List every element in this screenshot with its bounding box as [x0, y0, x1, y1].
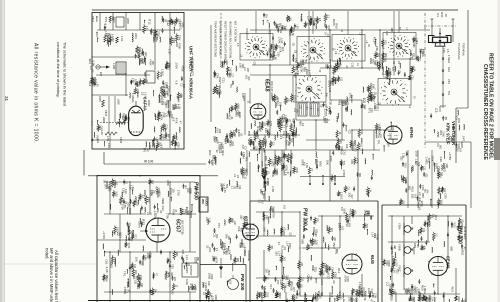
svg-text:R12: R12	[265, 215, 268, 220]
svg-text:1000: 1000	[457, 296, 460, 302]
svg-text:C11: C11	[370, 108, 373, 113]
svg-text:1000: 1000	[147, 197, 150, 203]
svg-text:1000: 1000	[172, 38, 175, 44]
svg-text:1.5K: 1.5K	[281, 118, 284, 123]
svg-text:R60: R60	[151, 180, 154, 185]
svg-text:100: 100	[408, 289, 412, 294]
svg-text:.001: .001	[172, 19, 175, 24]
svg-text:L805: L805	[98, 96, 101, 102]
svg-text:150V: 150V	[238, 112, 242, 118]
svg-text:C80: C80	[329, 100, 333, 105]
svg-text:680: 680	[186, 211, 190, 216]
svg-text:.001: .001	[271, 206, 275, 212]
svg-text:W10: W10	[301, 60, 305, 66]
svg-text:6U8: 6U8	[369, 255, 375, 264]
svg-text:R60: R60	[264, 156, 268, 162]
svg-text:TERMINAL: TERMINAL	[462, 43, 466, 57]
svg-text:L801: L801	[134, 33, 138, 39]
svg-text:2.2: 2.2	[230, 186, 233, 190]
svg-text:.047: .047	[282, 256, 285, 261]
svg-text:1 MEG: 1 MEG	[447, 55, 451, 63]
svg-text:680: 680	[384, 53, 387, 58]
svg-text:5%: 5%	[309, 276, 313, 281]
svg-text:C11: C11	[269, 284, 273, 289]
svg-text:L80: L80	[155, 137, 158, 142]
svg-text:TO ANTENNA: TO ANTENNA	[457, 43, 461, 60]
svg-text:.047: .047	[153, 112, 157, 118]
svg-text:1000: 1000	[275, 170, 278, 176]
svg-text:2.2: 2.2	[282, 135, 286, 139]
svg-text:C3: C3	[434, 108, 438, 112]
svg-text:2ND: 2ND	[201, 199, 204, 204]
svg-text:R12: R12	[141, 219, 145, 225]
svg-text:L14: L14	[418, 197, 421, 202]
svg-text:150V: 150V	[337, 145, 340, 151]
svg-text:W10: W10	[319, 294, 322, 300]
svg-text:10K: 10K	[182, 84, 185, 89]
svg-text:10K: 10K	[227, 250, 231, 255]
svg-text:L80: L80	[96, 83, 99, 88]
svg-text:R12: R12	[434, 215, 438, 220]
svg-text:1.5K: 1.5K	[150, 189, 154, 195]
svg-text:150V: 150V	[151, 290, 154, 296]
svg-text:100: 100	[281, 47, 285, 52]
svg-text:330: 330	[302, 220, 306, 225]
svg-text:100: 100	[388, 283, 392, 288]
svg-text:.001: .001	[349, 93, 353, 99]
svg-text:R12: R12	[447, 67, 451, 72]
svg-text:C14: C14	[107, 143, 110, 148]
svg-text:PART OF W4A: PART OF W4A	[218, 77, 222, 95]
svg-text:R60: R60	[384, 57, 387, 62]
svg-text:W10: W10	[457, 144, 460, 150]
svg-text:.001: .001	[373, 233, 376, 238]
svg-text:L14: L14	[222, 184, 226, 189]
svg-text:47: 47	[463, 247, 467, 251]
svg-text:C80: C80	[108, 186, 112, 192]
svg-text:.001: .001	[181, 22, 185, 28]
svg-text:C3: C3	[244, 146, 248, 150]
svg-text:1000: 1000	[330, 81, 333, 87]
svg-text:R60: R60	[220, 142, 224, 148]
svg-text:3.9K: 3.9K	[374, 293, 377, 298]
svg-text:C61: C61	[342, 150, 346, 156]
svg-text:2.2: 2.2	[284, 26, 288, 30]
svg-text:6FH5: 6FH5	[409, 127, 414, 138]
svg-text:R12: R12	[372, 37, 376, 43]
svg-text:1 MEG: 1 MEG	[136, 281, 140, 289]
svg-text:680: 680	[301, 239, 305, 244]
svg-text:.001: .001	[315, 229, 319, 235]
svg-text:6AF4A: 6AF4A	[143, 97, 148, 112]
svg-text:R12: R12	[443, 188, 446, 193]
svg-text:C11: C11	[370, 289, 374, 294]
svg-text:680: 680	[164, 104, 168, 109]
svg-text:10K: 10K	[247, 76, 250, 81]
svg-text:C80: C80	[171, 264, 174, 269]
svg-text:C61: C61	[411, 297, 414, 302]
svg-text:TP1: TP1	[365, 224, 368, 229]
svg-text:270K: 270K	[459, 226, 462, 232]
svg-text:1.5K: 1.5K	[178, 104, 182, 110]
svg-text:L14: L14	[185, 255, 189, 260]
svg-text:6.8: 6.8	[160, 145, 163, 149]
svg-text:120: 120	[173, 277, 176, 282]
svg-text:10K: 10K	[345, 144, 349, 149]
svg-text:22: 22	[289, 232, 293, 236]
svg-text:CHASSIS/TUNER CROSS-REFERENCE: CHASSIS/TUNER CROSS-REFERENCE	[482, 64, 488, 161]
svg-text:C11: C11	[339, 77, 342, 82]
svg-text:100: 100	[265, 14, 268, 19]
svg-text:Y30A: Y30A	[398, 223, 402, 230]
svg-text:1.5K: 1.5K	[431, 296, 434, 301]
svg-text:L80: L80	[285, 276, 289, 281]
svg-text:470K: 470K	[215, 258, 218, 264]
svg-text:.047: .047	[292, 287, 296, 293]
svg-text:3.9K: 3.9K	[346, 276, 350, 282]
svg-text:470K: 470K	[177, 142, 180, 148]
svg-text:+275V: +275V	[448, 152, 452, 160]
svg-text:R12: R12	[147, 19, 151, 25]
svg-text:1 MEG: 1 MEG	[204, 282, 208, 292]
svg-text:C80: C80	[444, 193, 448, 199]
svg-text:C11: C11	[422, 228, 425, 233]
svg-text:1 MEG: 1 MEG	[340, 192, 343, 200]
svg-text:3.9K: 3.9K	[279, 279, 282, 284]
svg-text:.001: .001	[208, 247, 212, 253]
svg-text:6DT6A: 6DT6A	[244, 216, 249, 229]
svg-text:100: 100	[241, 63, 245, 68]
svg-text:L80: L80	[131, 186, 134, 191]
svg-text:1000: 1000	[161, 99, 165, 105]
svg-text:6.8: 6.8	[111, 34, 115, 38]
svg-text:330: 330	[181, 250, 185, 255]
svg-text:.01: .01	[247, 100, 250, 104]
svg-text:R60: R60	[294, 130, 297, 135]
svg-text:330: 330	[138, 47, 141, 52]
svg-text:C80: C80	[375, 46, 379, 52]
svg-text:L14: L14	[169, 259, 172, 264]
svg-text:6EW6: 6EW6	[446, 256, 451, 269]
svg-text:MIX: MIX	[143, 72, 147, 77]
svg-text:W10: W10	[273, 44, 277, 50]
svg-text:L80: L80	[300, 262, 303, 267]
svg-text:10K: 10K	[450, 224, 454, 229]
svg-text:10K: 10K	[195, 187, 199, 192]
svg-text:PW 300: PW 300	[240, 274, 245, 291]
svg-text:R12: R12	[166, 20, 170, 26]
svg-text:100: 100	[415, 38, 418, 43]
svg-text:1.5K: 1.5K	[360, 292, 363, 297]
svg-text:W10: W10	[440, 200, 443, 206]
svg-text:100: 100	[373, 60, 377, 65]
svg-text:100: 100	[314, 240, 318, 245]
svg-text:L13B: L13B	[112, 63, 116, 69]
svg-text:VHF TUNER: VHF TUNER	[451, 121, 456, 145]
svg-text:3.9K: 3.9K	[155, 37, 158, 42]
svg-text:270K: 270K	[177, 19, 180, 25]
svg-text:TP1: TP1	[390, 249, 394, 255]
svg-text:L14: L14	[369, 188, 372, 193]
svg-text:3.9K: 3.9K	[105, 267, 109, 274]
svg-text:3-4: 3-4	[436, 13, 439, 17]
svg-text:L14: L14	[280, 39, 284, 44]
svg-text:1.5K: 1.5K	[160, 112, 163, 117]
svg-text:C3: C3	[284, 124, 288, 128]
svg-text:3.9K: 3.9K	[439, 156, 443, 162]
svg-text:100: 100	[166, 92, 169, 97]
svg-text:TP1: TP1	[342, 161, 345, 166]
svg-text:270K: 270K	[272, 212, 276, 219]
svg-text:C801: C801	[91, 16, 94, 23]
svg-text:3.9K: 3.9K	[162, 134, 165, 139]
svg-text:TP1: TP1	[143, 148, 146, 153]
svg-text:1000: 1000	[343, 208, 347, 214]
svg-text:1.5K: 1.5K	[283, 283, 286, 288]
svg-text:C11: C11	[143, 196, 147, 201]
svg-text:C80: C80	[377, 53, 380, 58]
svg-text:150V: 150V	[292, 95, 295, 101]
svg-text:470K: 470K	[271, 171, 274, 177]
svg-text:120: 120	[255, 146, 258, 151]
svg-text:330: 330	[215, 234, 219, 239]
svg-text:6.8: 6.8	[282, 205, 285, 209]
svg-text:1 MEG: 1 MEG	[229, 67, 232, 75]
svg-text:.001: .001	[275, 95, 278, 100]
svg-text:C11: C11	[133, 264, 136, 269]
svg-text:1000: 1000	[236, 103, 240, 110]
svg-text:100: 100	[149, 253, 153, 258]
svg-text:270K: 270K	[178, 35, 181, 41]
svg-text:270K: 270K	[189, 188, 193, 194]
svg-text:C61: C61	[330, 267, 333, 272]
svg-text:100: 100	[394, 262, 397, 267]
svg-text:680: 680	[358, 173, 361, 178]
svg-text:1.5K: 1.5K	[305, 163, 308, 168]
svg-text:270K: 270K	[255, 131, 258, 137]
svg-text:6.8: 6.8	[340, 207, 343, 211]
svg-text:10K: 10K	[130, 230, 133, 235]
svg-text:270K: 270K	[174, 63, 178, 70]
svg-text:L14: L14	[316, 19, 320, 24]
svg-text:TP1: TP1	[427, 157, 431, 163]
svg-text:1 MEG: 1 MEG	[214, 157, 218, 165]
svg-text:150V: 150V	[324, 109, 328, 117]
svg-text:TP1: TP1	[148, 145, 152, 150]
svg-text:22: 22	[332, 280, 336, 284]
svg-text:10K: 10K	[135, 257, 139, 262]
svg-text:100: 100	[388, 72, 391, 77]
svg-text:100: 100	[366, 210, 370, 215]
svg-text:C11: C11	[423, 166, 426, 171]
svg-text:2.2: 2.2	[258, 200, 262, 204]
svg-text:C11: C11	[238, 185, 241, 190]
svg-text:1000: 1000	[143, 255, 146, 261]
svg-text:.001: .001	[425, 173, 428, 178]
svg-text:C11: C11	[409, 54, 413, 60]
svg-text:KRK 97E/F: KRK 97E/F	[446, 123, 451, 145]
svg-text:680: 680	[196, 257, 199, 262]
svg-text:47: 47	[178, 121, 182, 125]
svg-text:W10: W10	[420, 201, 424, 207]
svg-text:R12: R12	[384, 40, 387, 45]
svg-text:3.9K: 3.9K	[91, 60, 95, 66]
svg-text:120: 120	[124, 189, 128, 194]
svg-text:150V: 150V	[435, 163, 439, 169]
svg-text:1 MEG: 1 MEG	[131, 93, 135, 103]
svg-text:3.9K: 3.9K	[442, 131, 446, 137]
svg-text:1 MEG: 1 MEG	[421, 49, 425, 57]
svg-text:L80: L80	[277, 52, 281, 57]
svg-text:L80: L80	[402, 200, 405, 205]
svg-text:TRAP AND REAR SECTIONS: TRAP AND REAR SECTIONS	[214, 21, 218, 57]
svg-text:C13: C13	[385, 31, 388, 36]
svg-text:120: 120	[376, 104, 380, 109]
svg-text:AUDIO: AUDIO	[185, 265, 189, 273]
svg-text:OF 6AE8A HEATER FORMS: OF 6AE8A HEATER FORMS	[219, 21, 223, 56]
svg-text:1.5K: 1.5K	[168, 49, 172, 55]
svg-text:120: 120	[426, 222, 429, 227]
svg-text:330: 330	[179, 94, 182, 99]
svg-text:.001: .001	[312, 267, 315, 272]
svg-text:47: 47	[174, 209, 178, 213]
svg-text:1800: 1800	[126, 18, 130, 24]
svg-text:C61: C61	[277, 292, 280, 297]
svg-text:680: 680	[236, 258, 239, 263]
svg-text:W10: W10	[333, 176, 336, 182]
svg-text:10K: 10K	[445, 163, 449, 168]
svg-text:.001: .001	[140, 283, 143, 288]
svg-text:150V: 150V	[389, 133, 393, 140]
svg-text:100: 100	[287, 142, 291, 147]
svg-text:L14: L14	[413, 67, 416, 72]
svg-text:.001: .001	[438, 144, 441, 149]
svg-text:C61: C61	[160, 95, 163, 100]
svg-text:120: 120	[300, 277, 303, 282]
svg-text:1.5K: 1.5K	[223, 188, 226, 193]
svg-text:100: 100	[337, 223, 341, 229]
svg-text:R12: R12	[327, 273, 331, 279]
svg-text:680: 680	[318, 161, 322, 166]
svg-text:.001: .001	[289, 17, 292, 22]
svg-text:100: 100	[126, 202, 130, 207]
svg-text:TP1: TP1	[123, 271, 127, 277]
svg-text:10K: 10K	[326, 160, 330, 165]
svg-text:C80: C80	[166, 180, 170, 186]
svg-text:L80: L80	[263, 227, 267, 232]
svg-text:330: 330	[289, 160, 292, 165]
svg-text:5%: 5%	[363, 291, 367, 296]
svg-text:6.8: 6.8	[228, 280, 232, 284]
svg-text:C61: C61	[447, 79, 451, 84]
svg-text:470K: 470K	[177, 43, 181, 49]
svg-text:R12: R12	[438, 173, 442, 179]
svg-text:C11: C11	[222, 78, 226, 84]
svg-text:100: 100	[246, 68, 250, 73]
svg-text:150V: 150V	[267, 270, 270, 276]
svg-text:C1B: C1B	[442, 48, 445, 53]
svg-text:3.9K: 3.9K	[185, 279, 189, 285]
svg-text:Y30B: Y30B	[398, 244, 402, 251]
svg-text:100: 100	[218, 129, 222, 134]
svg-text:1000: 1000	[116, 227, 119, 233]
svg-text:(9620147): (9620147)	[190, 58, 195, 77]
svg-text:W 106: W 106	[144, 160, 153, 164]
svg-text:270K: 270K	[295, 168, 298, 174]
svg-text:TP1: TP1	[244, 156, 248, 162]
svg-text:W1A: W1A	[440, 12, 443, 18]
svg-text:270K: 270K	[460, 236, 463, 242]
svg-text:C80: C80	[210, 274, 214, 280]
svg-text:1.5K: 1.5K	[120, 36, 124, 42]
svg-text:R12: R12	[161, 206, 165, 212]
svg-text:All resistance value in ohms K: All resistance value in ohms K = 1000.	[33, 43, 39, 143]
svg-text:W107: W107	[266, 178, 270, 185]
svg-text:C11: C11	[296, 71, 300, 76]
svg-text:C11: C11	[360, 130, 363, 135]
svg-text:150V: 150V	[128, 208, 132, 215]
svg-text:5%: 5%	[189, 283, 193, 288]
svg-text:W10: W10	[327, 25, 330, 31]
svg-text:1.5K: 1.5K	[354, 297, 358, 302]
svg-text:330: 330	[289, 155, 292, 160]
svg-text:.01: .01	[272, 162, 276, 166]
svg-text:1 MEG: 1 MEG	[358, 282, 362, 292]
svg-text:RESST TUNED CIRCUITS WIRED: RESST TUNED CIRCUITS WIRED	[224, 21, 228, 63]
svg-text:C80: C80	[386, 142, 390, 147]
svg-text:10K: 10K	[122, 119, 126, 124]
svg-text:2.2: 2.2	[418, 192, 421, 196]
svg-text:L80: L80	[151, 61, 155, 66]
svg-text:1 MEG: 1 MEG	[307, 70, 310, 78]
svg-text:TP1: TP1	[377, 140, 381, 145]
svg-text:270K: 270K	[156, 191, 160, 198]
svg-text:L80: L80	[333, 237, 336, 242]
svg-text:47: 47	[266, 20, 270, 24]
svg-text:L14: L14	[242, 155, 245, 160]
svg-text:L14: L14	[106, 33, 110, 39]
svg-text:.001: .001	[231, 141, 235, 147]
svg-text:.01: .01	[301, 122, 305, 126]
svg-text:L80: L80	[460, 222, 464, 227]
svg-text:W10: W10	[115, 192, 118, 198]
svg-text:condition at the time of print: condition at the time of printing.	[56, 42, 61, 98]
svg-text:680: 680	[175, 252, 178, 257]
svg-text:150V: 150V	[152, 30, 155, 36]
svg-text:100: 100	[362, 98, 366, 104]
svg-text:C61: C61	[232, 130, 236, 136]
svg-text:1 MEG: 1 MEG	[423, 286, 427, 294]
svg-text:W10: W10	[325, 118, 328, 124]
svg-text:.047: .047	[135, 201, 138, 206]
svg-text:22: 22	[393, 245, 397, 249]
svg-text:1.5K: 1.5K	[294, 58, 297, 63]
svg-text:1000: 1000	[160, 69, 164, 76]
svg-text:680: 680	[268, 48, 272, 53]
svg-text:1.5K: 1.5K	[402, 153, 406, 159]
svg-text:R12: R12	[337, 268, 341, 274]
svg-text:3.9K: 3.9K	[129, 185, 132, 190]
svg-text:C80: C80	[104, 259, 108, 264]
svg-text:OSC 1ST AMPL: OSC 1ST AMPL	[270, 81, 273, 100]
svg-text:L14: L14	[277, 251, 281, 256]
svg-text:R60: R60	[140, 51, 143, 56]
svg-text:1.5K: 1.5K	[142, 59, 146, 65]
svg-text:22: 22	[422, 247, 426, 251]
svg-text:.047: .047	[350, 194, 353, 199]
svg-text:C3: C3	[348, 130, 352, 134]
svg-text:1.5K: 1.5K	[136, 89, 139, 94]
